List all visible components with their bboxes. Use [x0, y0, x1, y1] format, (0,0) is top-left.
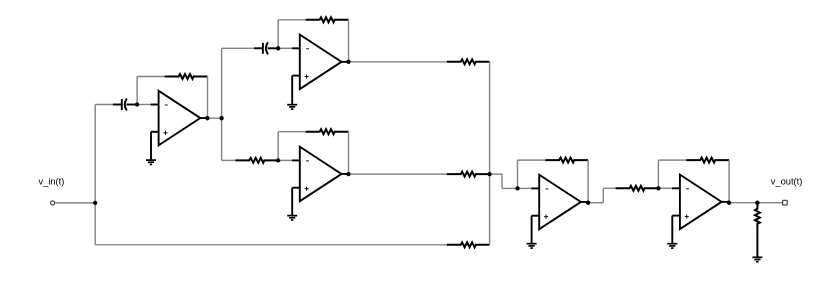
wire F down	[501, 174, 503, 188]
wire to C1	[95, 104, 113, 106]
resistor R8	[447, 242, 490, 247]
wire to output terminal	[757, 202, 782, 204]
wire U5 out	[729, 202, 757, 204]
resistor R2	[306, 17, 349, 22]
wire to C2	[222, 47, 255, 49]
node A junction	[93, 201, 97, 205]
wire G to U4	[518, 187, 532, 189]
wire F right	[490, 173, 502, 175]
svg-text:v_out(t): v_out(t)	[771, 176, 803, 186]
wire U1 out	[207, 117, 221, 119]
node U4 out	[586, 201, 590, 205]
wire U3 out to R7	[349, 173, 447, 175]
capacitor C1	[113, 99, 137, 111]
wire to R4	[518, 159, 546, 161]
resistor R4	[545, 158, 588, 163]
wire to R1	[137, 76, 165, 78]
wire node C vertical	[221, 48, 223, 160]
wire to R3	[278, 131, 306, 133]
wire R4 to U4 output	[587, 160, 589, 203]
wire node H up	[657, 160, 659, 188]
wire R3 to U3 output	[348, 132, 350, 174]
node C junction	[219, 116, 223, 120]
wire to R5	[222, 159, 236, 161]
op-amp U4	[531, 175, 588, 230]
wire U4 out	[588, 202, 603, 204]
svg-text:v_in(t): v_in(t)	[39, 176, 65, 186]
ground U1	[146, 132, 156, 165]
wire R1 to U1 output	[207, 77, 209, 119]
resistor R3	[306, 129, 349, 134]
op-amp U3	[292, 147, 349, 202]
wire U2 out to R6	[349, 61, 447, 63]
node U2 out	[346, 60, 350, 64]
node E junction	[276, 158, 280, 162]
wire node B up	[136, 77, 138, 105]
wire H to U5	[658, 187, 672, 189]
wire node A vertical	[94, 105, 96, 245]
wire input to node A	[55, 202, 95, 204]
capacitor C2	[254, 42, 278, 54]
ground U5	[667, 216, 677, 249]
node H junction	[656, 186, 660, 190]
ground U3	[287, 188, 297, 221]
node F junction	[487, 172, 491, 176]
node D junction	[276, 46, 280, 50]
resistor R10	[686, 158, 729, 163]
wire to node G	[502, 187, 518, 189]
resistor R5	[235, 158, 278, 163]
ground U2	[287, 76, 297, 110]
wire R5 to U3	[278, 159, 292, 161]
wire node G up	[517, 160, 519, 188]
node I junction	[755, 201, 759, 205]
wire R10 to U5 output	[728, 160, 730, 203]
wire node D up	[277, 20, 279, 49]
wire node E up	[277, 132, 279, 161]
node G junction	[515, 186, 519, 190]
node v_out terminal	[783, 200, 788, 205]
node U1 out	[205, 116, 209, 120]
wire to R10	[658, 159, 686, 161]
wire summing vertical	[489, 62, 491, 245]
op-amp U2	[292, 35, 349, 90]
op-amp U1	[151, 91, 208, 146]
resistor R6	[447, 59, 490, 64]
ground RL	[752, 256, 762, 262]
wire R2 to U2 output	[348, 20, 350, 62]
resistor R9	[616, 186, 659, 191]
op-amp U5	[672, 175, 729, 230]
wire step up	[602, 188, 604, 202]
wire to R2	[278, 19, 306, 21]
node U3 out	[346, 172, 350, 176]
resistor RL	[755, 203, 760, 258]
wire to R9	[603, 187, 615, 189]
node U5 out	[727, 201, 731, 205]
resistor R1	[165, 74, 208, 79]
node v_in terminal	[51, 201, 55, 205]
wire C2 to U2	[278, 47, 292, 49]
wire C1 to U1	[137, 104, 151, 106]
node B junction	[135, 102, 139, 106]
resistor R7	[447, 172, 490, 177]
wire bottom path	[95, 244, 447, 246]
ground U4	[527, 216, 537, 249]
